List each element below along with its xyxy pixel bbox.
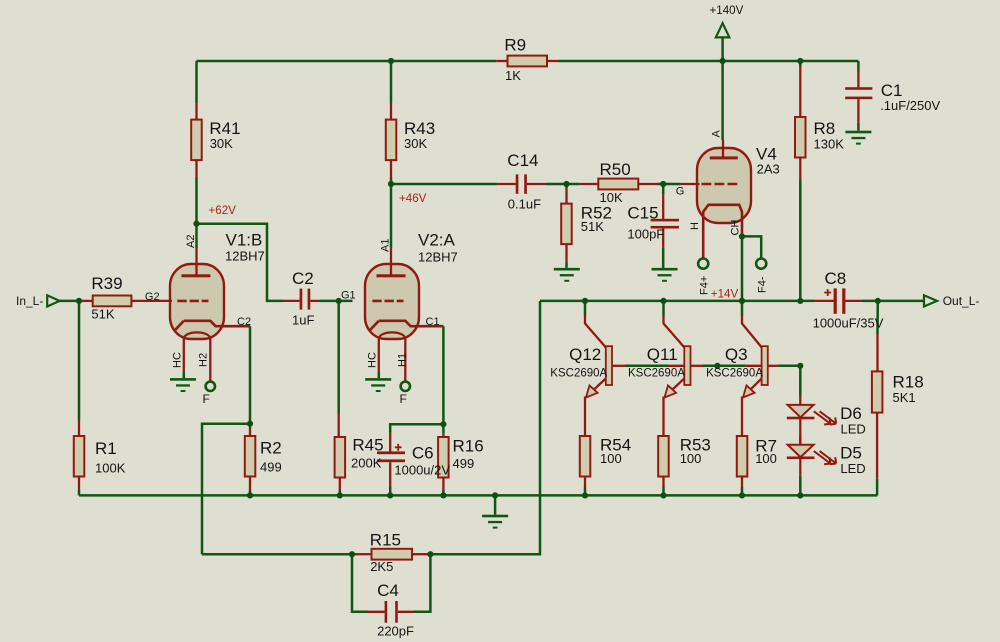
svg-text:100: 100 (680, 451, 702, 466)
svg-text:R8: R8 (814, 119, 836, 138)
svg-text:+14V: +14V (711, 287, 739, 300)
svg-text:Out_L-: Out_L- (943, 294, 980, 308)
svg-text:F4-: F4- (756, 276, 768, 293)
svg-text:F: F (400, 392, 407, 406)
svg-text:R9: R9 (504, 36, 526, 55)
svg-text:30K: 30K (404, 136, 427, 151)
svg-text:G2: G2 (145, 291, 160, 303)
svg-text:F: F (203, 392, 210, 406)
svg-text:C4: C4 (377, 581, 399, 600)
svg-text:Q12: Q12 (569, 345, 601, 364)
svg-text:H1: H1 (397, 353, 409, 367)
svg-text:V2:A: V2:A (418, 231, 456, 250)
svg-text:1K: 1K (505, 68, 521, 83)
svg-text:200K: 200K (351, 456, 382, 471)
svg-text:+62V: +62V (209, 204, 237, 217)
svg-text:HC: HC (367, 352, 379, 368)
svg-text:Q11: Q11 (647, 345, 678, 364)
svg-text:HC: HC (172, 352, 184, 368)
svg-text:R2: R2 (260, 439, 282, 458)
svg-text:220pF: 220pF (377, 624, 414, 639)
svg-text:R45: R45 (352, 436, 383, 455)
svg-text:2A3: 2A3 (757, 161, 780, 176)
svg-text:1uF: 1uF (292, 313, 314, 328)
svg-text:1000u/2V: 1000u/2V (394, 462, 450, 477)
svg-text:C2: C2 (237, 316, 251, 328)
svg-text:R50: R50 (600, 160, 631, 179)
svg-text:G1: G1 (341, 290, 356, 302)
svg-text:G: G (676, 186, 685, 198)
svg-text:H2: H2 (198, 353, 210, 367)
svg-text:R43: R43 (404, 119, 435, 138)
svg-text:A1: A1 (380, 239, 392, 252)
svg-text:0.1uF: 0.1uF (508, 197, 541, 212)
svg-text:F4+: F4+ (698, 276, 710, 295)
svg-text:499: 499 (453, 456, 475, 471)
svg-text:R39: R39 (91, 274, 122, 293)
svg-text:D6: D6 (840, 404, 862, 423)
svg-text:12BH7: 12BH7 (418, 250, 458, 265)
svg-text:C14: C14 (507, 151, 538, 170)
svg-text:LED: LED (841, 421, 866, 436)
svg-text:In_L-: In_L- (16, 294, 43, 308)
svg-text:R15: R15 (370, 530, 401, 549)
svg-text:499: 499 (260, 460, 282, 475)
svg-text:C15: C15 (627, 204, 658, 223)
svg-text:R18: R18 (893, 373, 924, 392)
svg-text:A2: A2 (185, 235, 197, 248)
svg-text:C1: C1 (426, 316, 440, 328)
svg-text:C6: C6 (412, 444, 434, 463)
svg-text:51K: 51K (91, 307, 114, 322)
svg-text:H: H (689, 222, 701, 230)
svg-text:+46V: +46V (399, 192, 427, 205)
svg-text:A: A (710, 130, 722, 138)
svg-text:+140V: +140V (710, 4, 744, 17)
svg-text:130K: 130K (814, 137, 845, 152)
svg-text:R41: R41 (209, 119, 240, 138)
svg-text:R1: R1 (95, 439, 117, 458)
svg-text:Q3: Q3 (725, 345, 748, 364)
svg-text:R16: R16 (453, 437, 484, 456)
svg-text:51K: 51K (581, 219, 604, 234)
svg-text:KSC2690A: KSC2690A (706, 367, 763, 379)
svg-text:C2: C2 (292, 269, 314, 288)
svg-text:100pF: 100pF (627, 227, 664, 242)
svg-text:CH: CH (730, 220, 742, 236)
svg-text:KSC2690A: KSC2690A (628, 367, 685, 379)
svg-text:100: 100 (600, 451, 622, 466)
svg-text:12BH7: 12BH7 (225, 249, 265, 264)
svg-text:.1uF/250V: .1uF/250V (880, 98, 940, 113)
svg-text:V1:B: V1:B (226, 231, 263, 250)
svg-text:30K: 30K (210, 136, 233, 151)
svg-text:LED: LED (840, 461, 865, 476)
svg-text:100K: 100K (95, 461, 126, 476)
svg-text:100: 100 (755, 451, 777, 466)
svg-text:1000uF/35V: 1000uF/35V (813, 315, 884, 330)
svg-text:2K5: 2K5 (370, 559, 393, 574)
svg-text:5K1: 5K1 (893, 390, 916, 405)
svg-text:D5: D5 (840, 443, 862, 462)
svg-text:C8: C8 (825, 269, 847, 288)
svg-text:KSC2690A: KSC2690A (550, 367, 607, 379)
